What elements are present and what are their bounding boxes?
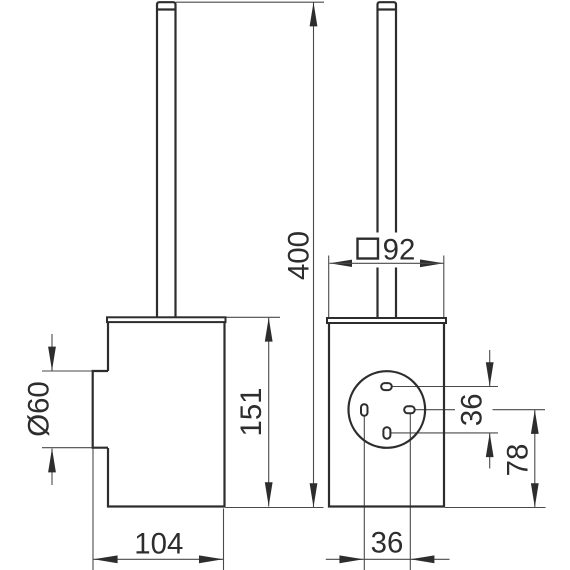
svg-text:Ø60: Ø60: [22, 381, 55, 437]
svg-text:36: 36: [456, 393, 489, 426]
svg-text:151: 151: [235, 387, 268, 436]
svg-text:92: 92: [383, 234, 416, 267]
svg-text:36: 36: [371, 527, 404, 560]
svg-text:78: 78: [502, 444, 535, 477]
svg-text:104: 104: [134, 528, 183, 561]
svg-text:400: 400: [282, 231, 315, 280]
